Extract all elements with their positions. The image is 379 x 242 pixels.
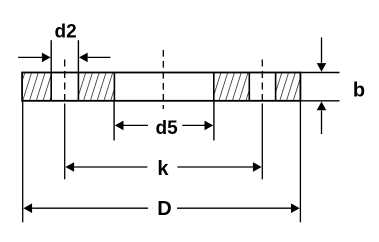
D left extension line	[22, 101, 24, 223]
d5 left extension line	[113, 101, 115, 141]
label b	[353, 80, 365, 102]
right bolt hole wall right	[275, 73, 277, 101]
hatch left outer section	[22, 73, 51, 101]
bore wall left	[113, 73, 115, 101]
bore wall right	[213, 73, 215, 101]
svg-text:k: k	[157, 158, 169, 180]
label d2	[55, 22, 77, 43]
label d5	[156, 118, 179, 139]
flange center line	[162, 50, 164, 109]
hatch left inner section	[78, 73, 114, 101]
b bottom extension line	[300, 100, 339, 102]
hatch right inner section	[214, 73, 250, 101]
left bolt hole wall left	[50, 73, 52, 101]
d2 right arrow	[79, 53, 110, 63]
b down arrow	[317, 37, 327, 71]
flange cross-section outline	[22, 73, 300, 101]
svg-text:b: b	[353, 80, 365, 102]
left bolt hole wall right	[77, 73, 79, 101]
d5 right arrow	[182, 121, 213, 131]
D left arrow	[23, 203, 148, 213]
k left arrow	[65, 162, 147, 172]
svg-text:D: D	[157, 198, 171, 220]
d5 left arrow	[115, 121, 148, 131]
label D	[157, 198, 171, 220]
k right extension line	[261, 104, 263, 180]
left bolt hole center line	[64, 60, 66, 102]
svg-text:d2: d2	[55, 22, 77, 43]
hatch right outer section	[276, 73, 301, 101]
D right arrow	[177, 203, 300, 213]
b up arrow	[317, 102, 327, 135]
d2 left extension line	[50, 40, 52, 72]
svg-text:d5: d5	[156, 118, 179, 139]
D right extension line	[299, 101, 301, 223]
d2 right extension line	[77, 40, 79, 72]
label k	[157, 158, 169, 180]
k right arrow	[177, 162, 261, 172]
right bolt hole wall left	[248, 73, 250, 101]
d2 left arrow	[18, 53, 51, 63]
right bolt hole center line	[261, 60, 263, 102]
k left extension line	[64, 104, 66, 180]
b top extension line	[300, 72, 339, 74]
d5 right extension line	[213, 101, 215, 141]
